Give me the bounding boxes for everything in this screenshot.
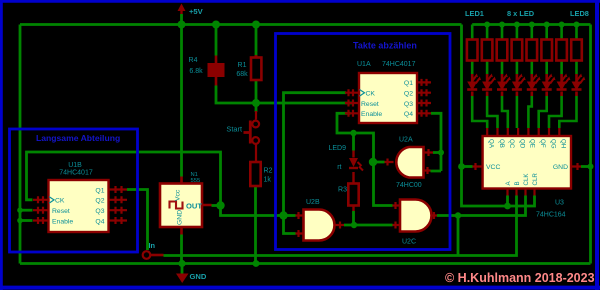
node 555 OUT <box>216 201 224 209</box>
svg-text:QH: QH <box>560 139 567 148</box>
wire LED3 to U3 pin <box>502 96 508 128</box>
svg-text:74HC4017: 74HC4017 <box>382 61 416 68</box>
resistor RL7 <box>556 25 567 75</box>
resistor RL5 <box>527 25 538 75</box>
svg-text:rt: rt <box>337 164 341 171</box>
svg-text:74HC4017: 74HC4017 <box>59 170 93 177</box>
svg-text:Q1: Q1 <box>95 187 104 194</box>
node R1 top on +5V rail <box>252 21 260 29</box>
svg-text:8 x LED: 8 x LED <box>507 9 535 18</box>
wire LED6 to U3 pin <box>539 96 547 128</box>
node LED rail taps <box>484 22 490 28</box>
LED L7 <box>557 74 571 97</box>
resistor RL8 <box>571 25 582 75</box>
svg-text:B: B <box>514 181 521 185</box>
node RC (R4/R1/Start to Reset) <box>252 99 260 107</box>
wire LED8 to U3 pin <box>559 96 576 128</box>
node +5V arrow junction <box>178 21 186 29</box>
svg-text:Vcc: Vcc <box>175 189 182 201</box>
svg-text:U2A: U2A <box>399 137 413 144</box>
node R4 top on +5V rail <box>212 21 220 29</box>
wire 555 OUT riser and CK feed to left box <box>27 152 221 206</box>
resistor R3 <box>338 177 359 212</box>
svg-text:CK: CK <box>366 91 376 98</box>
wire U1A Enable to LED9 node to gateA/gateC riser <box>337 113 393 205</box>
node gate A inputs tie <box>438 150 444 156</box>
LED L8 <box>572 74 586 97</box>
wire bottom rail <box>20 262 591 265</box>
wire 555 OUT stub link <box>212 204 221 207</box>
svg-text:555: 555 <box>191 178 201 184</box>
svg-text:Q4: Q4 <box>404 111 413 118</box>
power symbol +5V <box>178 4 204 22</box>
wire In port to U3 B input (bottom long wire) <box>164 196 517 256</box>
svg-text:QE: QE <box>529 139 536 148</box>
wire reset branch into left box <box>20 209 33 212</box>
wire gate B output to gate C input 2 <box>344 224 393 227</box>
svg-text:Q3: Q3 <box>404 101 413 108</box>
svg-text:QD: QD <box>518 139 525 149</box>
svg-text:1k: 1k <box>264 177 272 184</box>
svg-text:Q4: Q4 <box>95 218 104 225</box>
node enable branch on left vertical <box>17 218 23 224</box>
switch S1 Start <box>244 111 260 162</box>
svg-text:Q2: Q2 <box>404 91 413 98</box>
svg-text:LED9: LED9 <box>328 145 346 152</box>
svg-text:Reset: Reset <box>361 101 379 108</box>
svg-text:68k: 68k <box>236 71 248 78</box>
wire U3 VCC link <box>462 165 473 168</box>
svg-text:U2B: U2B <box>306 199 320 206</box>
wire 555 OUT to right box junction <box>221 206 285 216</box>
svg-text:QB: QB <box>498 139 505 148</box>
oscillator N1 555 <box>160 172 212 235</box>
svg-text:QG: QG <box>549 139 556 149</box>
svg-text:74HC00: 74HC00 <box>396 182 422 189</box>
wire U3 A input drop to level1 <box>506 196 509 207</box>
svg-text:Start: Start <box>226 125 242 134</box>
node R3 bottom on gate wire <box>351 222 357 228</box>
wire LED5 to U3 pin <box>528 96 531 128</box>
wire LED4 to U3 pin <box>516 96 519 128</box>
svg-text:U3: U3 <box>555 200 564 207</box>
node gate B input feed <box>279 211 287 219</box>
resistor R4 (filled) <box>189 56 225 86</box>
wire enable branch into left box <box>20 219 33 222</box>
svg-text:GND: GND <box>553 164 568 171</box>
node U3 A input on level1 <box>504 203 511 210</box>
svg-text:R1: R1 <box>238 62 247 69</box>
page border frame <box>0 0 600 3</box>
power symbol GND <box>176 264 207 284</box>
wire U1A Q4 to gate A inputs <box>431 113 442 171</box>
svg-text:U1A: U1A <box>357 61 371 68</box>
svg-text:CK: CK <box>55 198 65 205</box>
LED L6 <box>542 74 556 97</box>
IC U1B 74HC4017 (left box counter) <box>33 162 127 232</box>
resistor R2 <box>250 162 272 186</box>
svg-text:Q3: Q3 <box>95 208 104 215</box>
svg-text:Enable: Enable <box>52 218 73 225</box>
svg-text:Q2: Q2 <box>95 198 104 205</box>
svg-text:QF: QF <box>539 139 546 148</box>
LED L4 <box>512 74 526 97</box>
resistor R1 <box>236 55 261 80</box>
IC U1A 74HC4017 (right box counter) <box>345 61 431 123</box>
LED9 (in right box) <box>328 145 363 177</box>
svg-text:+5V: +5V <box>189 7 204 16</box>
node R2 bottom on bottom rail <box>253 260 260 267</box>
blue note box left (Langsame Abteilung) <box>10 129 138 252</box>
LED L3 <box>497 74 511 97</box>
node U3 GND on right vertical <box>588 164 594 170</box>
gate U2C 74HC00 <box>393 200 438 246</box>
resistor RL1 <box>467 25 478 75</box>
wire riser level2 to bottom long wire <box>457 216 460 256</box>
wire junction to gate B input 2 <box>284 216 296 234</box>
svg-text:LED1: LED1 <box>465 9 484 18</box>
wire R1 top leg <box>255 25 258 58</box>
svg-text:GND: GND <box>190 272 207 281</box>
wire +5V drop to 555 Vcc <box>180 25 183 177</box>
wire +5V top rail <box>20 23 462 26</box>
svg-text:Reset: Reset <box>52 208 70 215</box>
node gate A output riser <box>369 158 377 166</box>
svg-text:QA: QA <box>488 139 495 149</box>
svg-text:Langsame Abteilung: Langsame Abteilung <box>36 133 120 143</box>
LED L1 <box>467 74 481 97</box>
wire R4 bottom to Reset row <box>216 86 352 104</box>
wire right vertical (LED rail to bottom rail) <box>589 25 592 264</box>
wire gate A output to riser junction <box>373 161 385 164</box>
wire LED resistor rail <box>472 23 590 26</box>
resistor RL6 <box>541 25 552 75</box>
blue note box right (Takte zaehlen) <box>276 34 451 250</box>
svg-text:R4: R4 <box>189 57 198 64</box>
wire R1 bottom to RC node <box>255 80 258 104</box>
svg-text:R2: R2 <box>264 168 273 175</box>
wire U3 GND link to right vertical <box>581 165 591 168</box>
gate U2B 74HC00 <box>296 199 345 241</box>
wire gate C output level2 to U3 CLK <box>437 196 526 216</box>
node 555 GND on bottom rail <box>178 260 185 267</box>
node riser on level2 <box>455 212 461 218</box>
wire RC node to Start switch <box>255 103 258 112</box>
node U3 VCC on +5V leg <box>458 163 465 170</box>
wire LED1 to U3 pin <box>472 96 487 128</box>
svg-text:74HC164: 74HC164 <box>536 212 566 219</box>
wire LED2 to U3 pin <box>487 96 497 128</box>
wire +5V left vertical down to bottom rail <box>19 25 22 264</box>
gate U2A 74HC00 (mirrored) <box>385 137 434 190</box>
wire OUT riser to U1A CK <box>284 93 347 216</box>
node LED9 tap on enable wire <box>350 130 356 136</box>
svg-text:QC: QC <box>508 139 515 149</box>
svg-text:Enable: Enable <box>361 111 382 118</box>
wire left box Q1 down to In port <box>127 190 148 251</box>
wire junction to gate B input 1 <box>284 214 296 217</box>
wire R4 top leg <box>215 25 218 56</box>
resistor RL3 <box>497 25 508 75</box>
svg-text:CLR: CLR <box>532 173 539 186</box>
resistor RL2 <box>482 25 493 75</box>
node reset branch on left vertical <box>17 207 23 213</box>
svg-text:In: In <box>149 241 156 250</box>
wire LED7 to U3 pin <box>549 96 562 128</box>
resistor RL4 <box>512 25 523 75</box>
IC U3 74HC164 <box>473 128 582 219</box>
svg-text:U1B: U1B <box>68 162 82 169</box>
svg-text:6.8k: 6.8k <box>189 68 203 75</box>
svg-text:GND: GND <box>177 210 184 225</box>
svg-text:Takte abzählen: Takte abzählen <box>353 41 417 51</box>
svg-text:U2C: U2C <box>402 239 416 246</box>
LED L5 <box>527 74 541 97</box>
svg-text:VCC: VCC <box>486 164 500 171</box>
wire R3 bottom to gate B output wire <box>352 211 355 225</box>
svg-text:R3: R3 <box>338 187 347 194</box>
svg-text:LED8: LED8 <box>570 9 589 18</box>
svg-text:OUT: OUT <box>186 202 202 211</box>
connector In port <box>143 241 164 259</box>
wire R2 bottom to bottom rail <box>254 187 257 264</box>
LED L2 <box>482 74 496 97</box>
wire LED9 top link <box>352 133 355 151</box>
wire 555 GND leg to bottom rail <box>180 235 183 264</box>
wire +5V leg down to level1 (A/CLR feed) <box>462 25 535 207</box>
svg-text:CLK: CLK <box>523 173 530 186</box>
svg-text:© H.Kuhlmann 2018-2023: © H.Kuhlmann 2018-2023 <box>445 271 595 285</box>
svg-text:Q1: Q1 <box>404 80 413 87</box>
